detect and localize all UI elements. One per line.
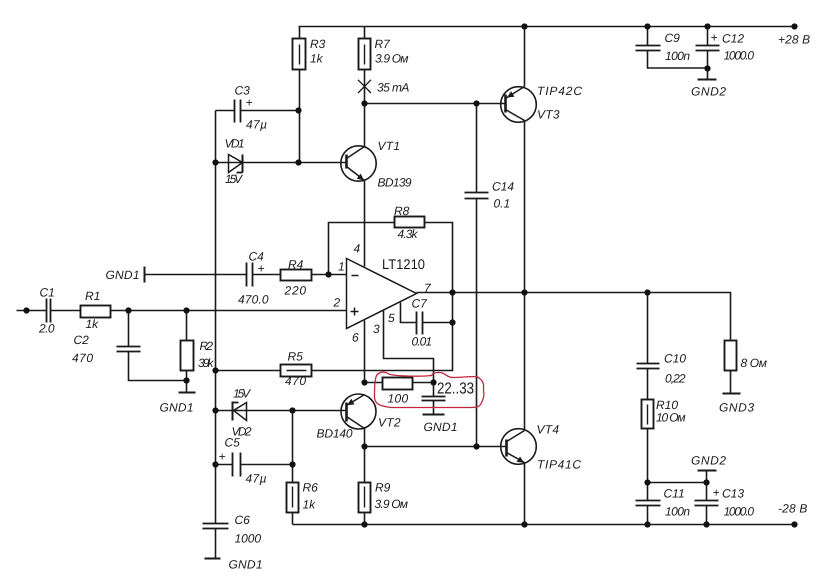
svg-text:2.0: 2.0 [38, 322, 55, 336]
svg-text:100n: 100n [665, 505, 690, 519]
svg-text:TIP41C: TIP41C [537, 458, 581, 472]
svg-text:GND1: GND1 [229, 558, 263, 572]
svg-text:VD1: VD1 [225, 137, 245, 151]
svg-text:8 Ом: 8 Ом [741, 356, 768, 370]
svg-text:4.3k: 4.3k [398, 227, 419, 241]
svg-text:C2: C2 [74, 333, 90, 347]
svg-text:6: 6 [352, 331, 359, 345]
svg-text:3: 3 [373, 322, 380, 336]
svg-text:R7: R7 [375, 37, 392, 51]
svg-text:GND1: GND1 [424, 420, 458, 434]
svg-text:C5: C5 [225, 436, 241, 450]
svg-text:C11: C11 [664, 487, 685, 501]
svg-text:47µ: 47µ [246, 472, 267, 486]
svg-text:470: 470 [285, 374, 306, 388]
svg-text:2: 2 [333, 296, 341, 310]
svg-text:1k: 1k [310, 52, 324, 66]
svg-text:GND1: GND1 [160, 401, 194, 415]
svg-text:470.0: 470.0 [238, 293, 269, 307]
svg-text:1000: 1000 [235, 532, 262, 546]
svg-text:C9: C9 [665, 31, 681, 45]
svg-text:C6: C6 [235, 513, 251, 527]
svg-text:C10: C10 [664, 352, 686, 366]
svg-text:VT4: VT4 [537, 423, 560, 437]
svg-text:0,22: 0,22 [665, 372, 686, 386]
svg-text:470: 470 [72, 351, 93, 365]
svg-text:C14: C14 [492, 180, 514, 194]
svg-text:R6: R6 [303, 481, 319, 495]
svg-text:R1: R1 [85, 289, 100, 303]
svg-text:220: 220 [284, 284, 307, 298]
svg-text:R5: R5 [288, 350, 304, 364]
svg-text:15V: 15V [233, 387, 251, 401]
svg-text:+: + [713, 486, 720, 500]
svg-text:47µ: 47µ [246, 118, 267, 132]
svg-text:+28 В: +28 В [778, 33, 810, 47]
svg-text:+: + [246, 96, 253, 110]
svg-text:R9: R9 [375, 481, 391, 495]
svg-text:100: 100 [388, 392, 409, 406]
svg-text:10 Ом: 10 Ом [656, 411, 686, 425]
svg-text:1k: 1k [86, 317, 100, 331]
svg-text:35 mA: 35 mA [377, 81, 409, 95]
svg-text:0.1: 0.1 [494, 197, 511, 211]
svg-text:C13: C13 [722, 487, 744, 501]
svg-text:22..33: 22..33 [437, 381, 474, 398]
svg-text:C12: C12 [722, 32, 744, 46]
svg-text:3.9 Ом: 3.9 Ом [375, 52, 409, 66]
svg-text:1000.0: 1000.0 [724, 505, 755, 519]
svg-text:TIP42C: TIP42C [537, 84, 582, 98]
svg-text:5: 5 [388, 311, 395, 325]
svg-text:100n: 100n [665, 49, 690, 63]
svg-text:15V: 15V [225, 172, 243, 186]
svg-text:0.01: 0.01 [412, 335, 433, 349]
svg-text:4: 4 [354, 242, 361, 256]
svg-text:GND2: GND2 [691, 454, 726, 468]
svg-text:1000.0: 1000.0 [724, 49, 755, 63]
svg-text:1k: 1k [303, 498, 317, 512]
svg-text:R4: R4 [288, 258, 304, 272]
svg-text:BD140: BD140 [317, 427, 353, 441]
svg-text:BD139: BD139 [378, 176, 412, 190]
svg-text:VT1: VT1 [378, 139, 401, 153]
svg-text:VT2: VT2 [378, 416, 401, 430]
svg-text:LT1210: LT1210 [382, 256, 425, 272]
svg-text:GND3: GND3 [719, 401, 754, 415]
svg-text:C7: C7 [412, 297, 429, 311]
svg-text:R2: R2 [200, 339, 214, 353]
svg-text:GND1: GND1 [106, 268, 140, 282]
svg-text:-28 В: -28 В [778, 502, 807, 516]
svg-text:C1: C1 [40, 286, 55, 300]
svg-text:VT3: VT3 [537, 108, 560, 122]
svg-text:GND2: GND2 [691, 85, 726, 99]
svg-text:R8: R8 [394, 204, 410, 218]
svg-text:+: + [711, 31, 718, 45]
svg-text:39k: 39k [198, 356, 215, 370]
svg-text:+: + [219, 450, 226, 464]
svg-text:3.9 Ом: 3.9 Ом [375, 497, 409, 511]
svg-text:+: + [258, 262, 265, 276]
svg-text:R3: R3 [310, 37, 326, 51]
svg-text:1: 1 [338, 260, 345, 274]
